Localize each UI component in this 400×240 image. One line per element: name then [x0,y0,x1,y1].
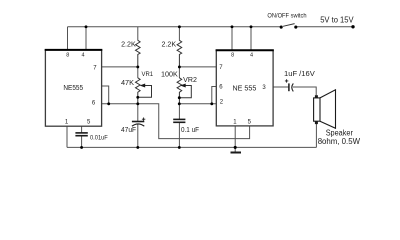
svg-text:4: 4 [250,53,253,59]
svg-text:VR1: VR1 [142,71,154,78]
svg-text:2.2K: 2.2K [162,42,177,49]
svg-text:ON/OFF switch: ON/OFF switch [267,12,307,19]
svg-text:NE 555: NE 555 [233,83,257,92]
svg-text:NE555: NE555 [63,83,83,92]
svg-text:8: 8 [231,53,234,59]
svg-text:0.01uF: 0.01uF [90,134,108,141]
svg-text:47K: 47K [121,80,134,87]
svg-text:4: 4 [81,53,84,59]
svg-text:5V to 15V: 5V to 15V [320,15,354,24]
svg-text:8: 8 [66,53,69,59]
svg-text:47uF: 47uF [121,127,136,134]
svg-text:100K: 100K [161,72,178,79]
svg-text:0.1 uF: 0.1 uF [181,127,199,134]
svg-text:VR2: VR2 [183,77,197,84]
svg-text:2.2K: 2.2K [121,42,136,49]
svg-text:1uF /16V: 1uF /16V [284,71,315,78]
svg-text:8ohm, 0.5W: 8ohm, 0.5W [318,137,361,146]
